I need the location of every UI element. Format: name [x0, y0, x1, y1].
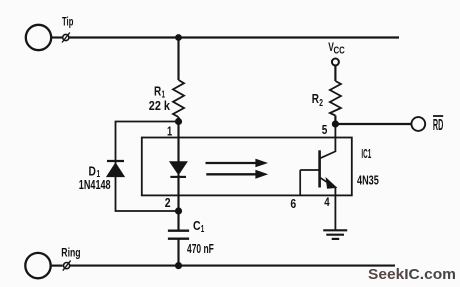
svg-text:1: 1 — [201, 224, 205, 235]
svg-text:RD: RD — [433, 117, 443, 134]
svg-text:1: 1 — [167, 124, 172, 139]
svg-text:2: 2 — [165, 195, 171, 210]
svg-text:1N4148: 1N4148 — [79, 177, 111, 192]
svg-text:2: 2 — [319, 98, 323, 109]
svg-text:22 k: 22 k — [149, 98, 171, 113]
svg-text:470 nF: 470 nF — [187, 242, 214, 256]
svg-text:4N35: 4N35 — [357, 172, 379, 187]
svg-text:6: 6 — [290, 196, 296, 211]
svg-text:4: 4 — [324, 195, 330, 209]
svg-text:Tip: Tip — [62, 17, 73, 29]
svg-text:Ring: Ring — [61, 248, 80, 260]
svg-text:CC: CC — [334, 46, 345, 57]
svg-text:D: D — [89, 163, 96, 178]
svg-text:IC1: IC1 — [361, 146, 371, 161]
svg-text:SeekIC.com: SeekIC.com — [368, 267, 456, 283]
svg-text:5: 5 — [322, 122, 328, 137]
